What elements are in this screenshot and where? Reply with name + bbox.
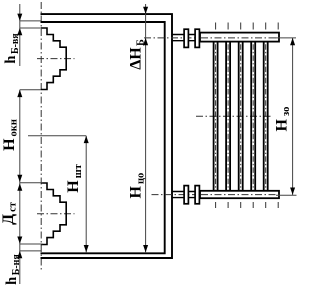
- bottom flange pair (valve) left bar: [184, 186, 188, 204]
- arrow up tip at shape top (h Б-вя): [17, 28, 22, 35]
- Н зо dimension line: [292, 38, 294, 195]
- left dimension line (upper part, h Б-вя): [19, 4, 21, 66]
- arrow down tip (Н шт bottom): [84, 245, 89, 252]
- extension line top shape top: [20, 27, 41, 29]
- top header axis dash-dot: [201, 37, 278, 39]
- arrow up tip (Н шт top): [84, 136, 89, 143]
- top flame shape centerline: [37, 58, 75, 60]
- extension line top shape bottom: [20, 89, 41, 91]
- arrow down tip (Н зо bottom): [290, 188, 295, 195]
- arrow down tip (Н цо bottom): [143, 245, 148, 252]
- arrow up tip (Д ст top): [17, 183, 22, 190]
- arrow down tip at inner-top (h Б-вя): [17, 14, 22, 21]
- left dimension line (lower chain): [19, 90, 21, 284]
- supply pipe bottom edge: [172, 40, 200, 42]
- radiator section centerlines (dash-dot, between headers): [216, 33, 266, 198]
- return pipe top edge: [172, 191, 200, 193]
- top flange pair right bar: [195, 29, 199, 47]
- arrow down tip (Н окн bottom): [17, 175, 22, 182]
- bottom burner stepped shape: [41, 183, 66, 245]
- arrow up tip (Н окн top): [17, 90, 22, 97]
- arrow down tip (Д ст bottom / h Б-ня top): [17, 237, 22, 244]
- top pipe axis (dash-dot): [144, 37, 279, 39]
- return pipe bottom edge: [172, 197, 200, 199]
- main vertical centerline axis: [40, 2, 42, 272]
- radiator section tubes (5 columns, solid pairs): [214, 42, 268, 190]
- arrow up tip (h Б-ня bottom): [17, 251, 22, 258]
- extension line inner-bottom level: [20, 250, 41, 252]
- radiator top header: [200, 33, 279, 42]
- furnace frame outer wall: [41, 14, 173, 258]
- section centerline ticks below bottom header: [216, 202, 279, 208]
- Н шт dimension line: [85, 136, 87, 253]
- Н зо extension line top: [275, 37, 296, 39]
- radiator bottom header: [200, 191, 279, 198]
- bottom header axis dash-dot: [201, 194, 278, 196]
- extension line inner-top level: [20, 20, 41, 22]
- extension line bottom shape bottom: [20, 243, 43, 245]
- bottom pipe axis (dash-dot): [152, 194, 280, 196]
- furnace frame inner wall: [41, 22, 165, 253]
- Н шт extension line: [28, 135, 86, 137]
- arrow up tip at pipe axis (ΔН Б / Н цо): [143, 38, 148, 45]
- arrow down tip at frame top (ΔН Б): [143, 7, 148, 14]
- section centerline ticks above top header: [216, 23, 279, 30]
- ΔН Б / Н цо shared dimension line: [145, 4, 147, 252]
- top flange pair (valve) left bar: [184, 29, 188, 47]
- radiator horizontal centerline: [196, 115, 273, 117]
- top burner stepped shape: [41, 28, 66, 90]
- Н зо extension line bottom: [276, 194, 297, 196]
- bottom flame shape centerline: [37, 213, 75, 215]
- extension line bottom shape top: [20, 182, 43, 184]
- arrow up tip (Н зо top): [290, 38, 295, 45]
- supply pipe top edge: [172, 34, 200, 36]
- bottom flange pair right bar: [195, 186, 199, 204]
